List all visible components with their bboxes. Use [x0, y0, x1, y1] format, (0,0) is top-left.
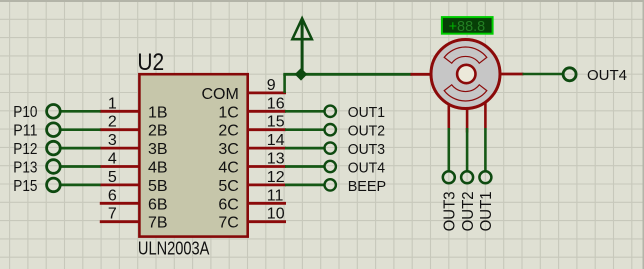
wire P11 to pin 2: [61, 128, 101, 131]
motor angle display: [442, 17, 493, 34]
svg-text:3B: 3B: [148, 141, 168, 158]
svg-text:OUT3: OUT3: [348, 141, 385, 158]
svg-text:4C: 4C: [218, 160, 238, 177]
svg-text:5: 5: [108, 169, 117, 186]
svg-text:U2: U2: [137, 49, 164, 76]
svg-text:5B: 5B: [148, 178, 168, 195]
svg-text:P10: P10: [13, 104, 38, 121]
svg-text:14: 14: [267, 132, 285, 149]
wire P13 to pin 4: [61, 165, 101, 168]
wire pin 12 to BEEP: [285, 184, 325, 187]
IC U2 ULN2003A body: [139, 74, 247, 236]
pin 5 stub (5B): [100, 183, 139, 186]
terminal P10: [47, 105, 61, 119]
wire COM riser: [283, 74, 286, 93]
junction dot: [295, 68, 308, 81]
svg-text:15: 15: [267, 114, 285, 131]
svg-text:1B: 1B: [148, 104, 168, 121]
svg-text:3C: 3C: [218, 141, 238, 158]
svg-text:COM: COM: [201, 86, 238, 103]
wire P10 to pin 1: [61, 110, 101, 113]
svg-text:4: 4: [108, 151, 117, 168]
svg-text:6C: 6C: [218, 196, 238, 213]
svg-text:16: 16: [267, 95, 285, 112]
svg-text:10: 10: [267, 206, 285, 223]
svg-text:ULN2003A: ULN2003A: [138, 239, 210, 259]
motor right pin stub: [500, 73, 524, 76]
svg-text:2C: 2C: [218, 123, 238, 140]
svg-text:5C: 5C: [218, 178, 238, 195]
pin 1 stub (1B): [100, 110, 139, 113]
wire pin 16 to OUT1: [285, 110, 325, 113]
terminal OUT4: [325, 161, 336, 172]
power arrow symbol: [292, 18, 312, 39]
wire motor to OUT1: [484, 128, 487, 171]
svg-text:P13: P13: [13, 159, 37, 176]
wire pin 14 to OUT3: [285, 147, 325, 150]
power symbol vertical pin: [301, 20, 304, 74]
svg-text:OUT4: OUT4: [587, 67, 627, 84]
terminal P11: [47, 123, 61, 137]
pin 2 stub (2B): [100, 128, 139, 131]
motor M1 body: [431, 40, 500, 109]
terminal OUT2: [461, 171, 473, 183]
svg-text:1: 1: [108, 95, 117, 112]
svg-text:OUT1: OUT1: [478, 191, 495, 231]
wire motor to OUT2: [466, 128, 469, 171]
pin 10 stub (7C): [248, 220, 286, 223]
motor bottom pin stubs: [447, 100, 450, 130]
terminal P15: [47, 178, 61, 192]
terminal OUT4: [563, 68, 576, 81]
wire pin 13 to OUT4: [285, 165, 325, 168]
terminal BEEP: [325, 179, 336, 190]
terminal OUT1: [479, 171, 491, 183]
svg-text:1C: 1C: [218, 104, 238, 121]
motor left pin stub: [411, 73, 432, 76]
pin 13 stub (4C): [248, 165, 286, 168]
svg-text:OUT3: OUT3: [442, 191, 459, 231]
pin 16 stub (1C): [248, 110, 286, 113]
pin 9 stub (COM): [248, 92, 286, 95]
pin 12 stub (5C): [248, 183, 286, 186]
terminal OUT3: [443, 171, 455, 183]
wire COM horizontal to motor: [283, 73, 411, 76]
svg-text:6B: 6B: [148, 196, 168, 213]
motor shaft hole: [457, 65, 475, 83]
svg-text:P12: P12: [13, 141, 37, 158]
svg-text:OUT2: OUT2: [348, 123, 385, 140]
terminal OUT2: [325, 124, 336, 135]
svg-text:7C: 7C: [218, 215, 238, 232]
motor bottom pole arc: [444, 85, 487, 101]
pin 4 stub (4B): [100, 165, 139, 168]
svg-text:BEEP: BEEP: [348, 178, 387, 195]
svg-text:9: 9: [267, 77, 276, 94]
wire motor to OUT4: [523, 73, 564, 76]
svg-text:13: 13: [267, 151, 285, 168]
terminal OUT3: [325, 142, 336, 153]
svg-text:6: 6: [108, 187, 117, 204]
svg-text:4B: 4B: [148, 160, 168, 177]
svg-text:7B: 7B: [148, 215, 168, 232]
motor top pole arc: [444, 47, 487, 63]
svg-text:OUT2: OUT2: [460, 191, 477, 231]
svg-text:OUT4: OUT4: [348, 159, 385, 176]
svg-text:P15: P15: [13, 178, 37, 195]
pin 15 stub (2C): [248, 128, 286, 131]
pin 14 stub (3C): [248, 147, 286, 150]
svg-text:12: 12: [267, 169, 285, 186]
svg-text:P11: P11: [13, 123, 37, 140]
pin 3 stub (3B): [100, 147, 139, 150]
svg-text:7: 7: [108, 206, 117, 223]
svg-text:OUT1: OUT1: [348, 104, 385, 121]
svg-text:3: 3: [108, 132, 117, 149]
wire pin 15 to OUT2: [285, 128, 325, 131]
pin 6 stub (6B): [100, 202, 139, 205]
wire P15 to pin 5: [61, 184, 101, 187]
svg-text:+88.8: +88.8: [449, 18, 486, 35]
wire P12 to pin 3: [61, 147, 101, 150]
wire motor to OUT3: [447, 128, 450, 171]
svg-text:11: 11: [267, 187, 284, 204]
pin 7 stub (7B): [100, 220, 139, 223]
svg-text:2: 2: [108, 114, 117, 131]
pin 11 stub (6C): [248, 202, 286, 205]
terminal OUT1: [325, 106, 336, 117]
terminal P13: [47, 160, 61, 174]
svg-text:2B: 2B: [148, 123, 168, 140]
terminal P12: [47, 141, 61, 155]
